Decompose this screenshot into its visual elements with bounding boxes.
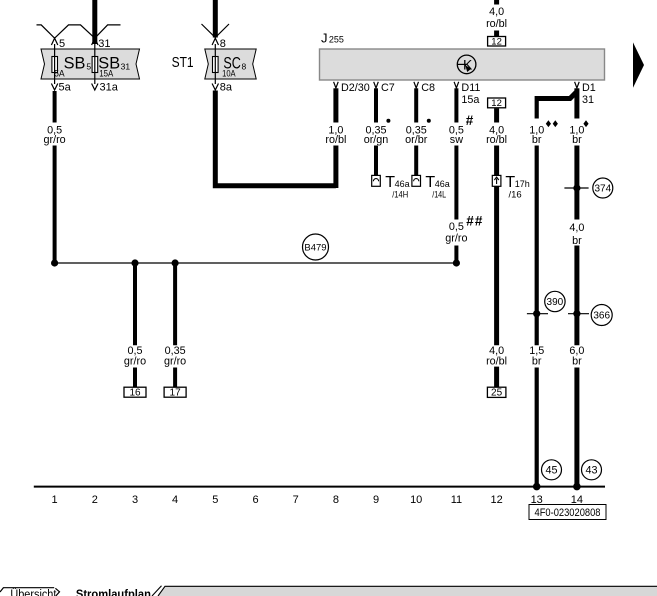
svg-text:4: 4 xyxy=(172,494,178,506)
svg-text:or/br: or/br xyxy=(405,134,428,146)
svg-text:gr/ro: gr/ro xyxy=(164,356,186,368)
svg-text:6: 6 xyxy=(252,494,258,506)
svg-text:9: 9 xyxy=(373,494,379,506)
svg-text:/16: /16 xyxy=(509,189,522,200)
svg-text:C7: C7 xyxy=(381,82,395,94)
svg-text:gr/ro: gr/ro xyxy=(124,356,146,368)
svg-text:br: br xyxy=(572,134,582,146)
svg-text:5a: 5a xyxy=(59,82,72,94)
svg-text:366: 366 xyxy=(593,311,610,322)
svg-text:Übersicht: Übersicht xyxy=(10,589,57,596)
svg-text:15A: 15A xyxy=(99,68,114,79)
svg-text:390: 390 xyxy=(547,297,564,308)
svg-text:8a: 8a xyxy=(220,82,233,94)
svg-text:/14H: /14H xyxy=(392,189,408,200)
svg-text:C8: C8 xyxy=(421,82,435,94)
svg-text:B479: B479 xyxy=(304,243,326,254)
svg-text:sw: sw xyxy=(450,134,463,146)
svg-text:0,5: 0,5 xyxy=(449,221,464,233)
svg-text:ro/bl: ro/bl xyxy=(486,18,507,30)
svg-text:31: 31 xyxy=(121,61,131,71)
svg-text:J: J xyxy=(321,31,328,46)
svg-text:46a: 46a xyxy=(435,179,450,189)
svg-text:10A: 10A xyxy=(222,68,236,79)
svg-text:4,0: 4,0 xyxy=(489,6,504,18)
svg-text:ro/bl: ro/bl xyxy=(486,356,507,368)
svg-text:D2/30: D2/30 xyxy=(341,82,370,94)
svg-text:25: 25 xyxy=(491,388,503,399)
svg-text:8: 8 xyxy=(333,494,339,506)
svg-text:11: 11 xyxy=(451,494,462,506)
svg-text:br: br xyxy=(572,235,582,247)
svg-text:D1: D1 xyxy=(582,82,596,94)
svg-text:br: br xyxy=(532,134,542,146)
svg-text:br: br xyxy=(572,356,582,368)
svg-text:255: 255 xyxy=(329,35,344,45)
svg-text:5: 5 xyxy=(59,38,65,50)
svg-text:3: 3 xyxy=(132,494,138,506)
svg-text:/14L: /14L xyxy=(432,189,446,200)
svg-text:16: 16 xyxy=(129,388,141,399)
svg-text:15a: 15a xyxy=(461,94,479,106)
svg-text:5: 5 xyxy=(86,61,91,71)
svg-text:#: # xyxy=(466,113,474,128)
svg-text:46a: 46a xyxy=(395,179,410,189)
svg-text:12: 12 xyxy=(491,37,502,48)
svg-text:Stromlaufplan: Stromlaufplan xyxy=(76,589,151,596)
svg-text:12: 12 xyxy=(491,98,502,109)
svg-text:5A: 5A xyxy=(54,68,65,79)
svg-text:374: 374 xyxy=(594,184,611,195)
svg-text:4,0: 4,0 xyxy=(569,222,584,234)
svg-text:8: 8 xyxy=(242,61,247,71)
svg-text:10: 10 xyxy=(410,494,422,506)
svg-text:SB: SB xyxy=(64,53,86,72)
svg-text:gr/ro: gr/ro xyxy=(43,134,65,146)
svg-text:ro/bl: ro/bl xyxy=(486,134,507,146)
svg-text:31: 31 xyxy=(98,38,110,50)
svg-text:31: 31 xyxy=(582,94,594,106)
svg-text:2: 2 xyxy=(92,494,98,506)
svg-text:43: 43 xyxy=(585,465,597,477)
svg-text:gr/ro: gr/ro xyxy=(445,233,467,245)
svg-text:D11: D11 xyxy=(461,82,480,94)
svg-text:8: 8 xyxy=(220,38,226,50)
svg-text:31a: 31a xyxy=(100,82,119,94)
svg-text:5: 5 xyxy=(212,494,218,506)
svg-text:17: 17 xyxy=(170,388,182,399)
svg-text:17h: 17h xyxy=(515,179,530,189)
svg-text:12: 12 xyxy=(490,494,502,506)
svg-text:4F0-023020808: 4F0-023020808 xyxy=(535,507,601,519)
svg-text:ST1: ST1 xyxy=(172,55,194,71)
svg-text:##: ## xyxy=(466,214,483,229)
svg-text:br: br xyxy=(532,356,542,368)
svg-text:1: 1 xyxy=(52,494,58,506)
svg-text:ro/bl: ro/bl xyxy=(325,134,346,146)
svg-text:45: 45 xyxy=(545,465,557,477)
svg-text:7: 7 xyxy=(293,494,299,506)
svg-text:or/gn: or/gn xyxy=(364,134,389,146)
